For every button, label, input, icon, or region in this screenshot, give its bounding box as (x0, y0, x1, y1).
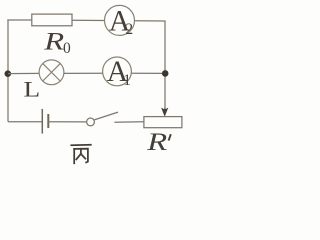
svg-text:L: L (24, 78, 41, 102)
label 丙 (drawn strokes) (71, 145, 91, 164)
wire battery to switch (48, 121, 86, 123)
switch lever (94, 112, 118, 120)
wire bottom left segment (8, 121, 42, 123)
svg-text:0: 0 (63, 40, 71, 57)
node junction left (5, 70, 12, 77)
rheostat R' (144, 117, 182, 128)
battery short plate (47, 114, 49, 128)
battery long plate (41, 109, 43, 134)
wire left vertical (7, 20, 9, 122)
ammeter A2 (105, 5, 135, 35)
svg-text:1: 1 (123, 72, 131, 89)
wire top middle segment (72, 19, 104, 21)
switch pivot (87, 118, 95, 126)
wire right vertical (164, 21, 166, 110)
wire top left segment (7, 19, 32, 21)
wire middle right segment (131, 72, 165, 74)
svg-text:R: R (43, 28, 64, 56)
wire switch to rheostat (114, 121, 143, 123)
wire middle left segment (8, 72, 39, 74)
node junction right (162, 70, 169, 77)
resistor R0 (32, 14, 72, 26)
wire middle center segment (64, 72, 103, 74)
lamp L (39, 60, 64, 85)
ammeter A1 (103, 57, 132, 86)
svg-text:R: R (146, 128, 167, 156)
svg-text:2: 2 (125, 21, 133, 38)
wire top right segment (135, 20, 166, 22)
rheostat wiper arrow (162, 108, 168, 116)
